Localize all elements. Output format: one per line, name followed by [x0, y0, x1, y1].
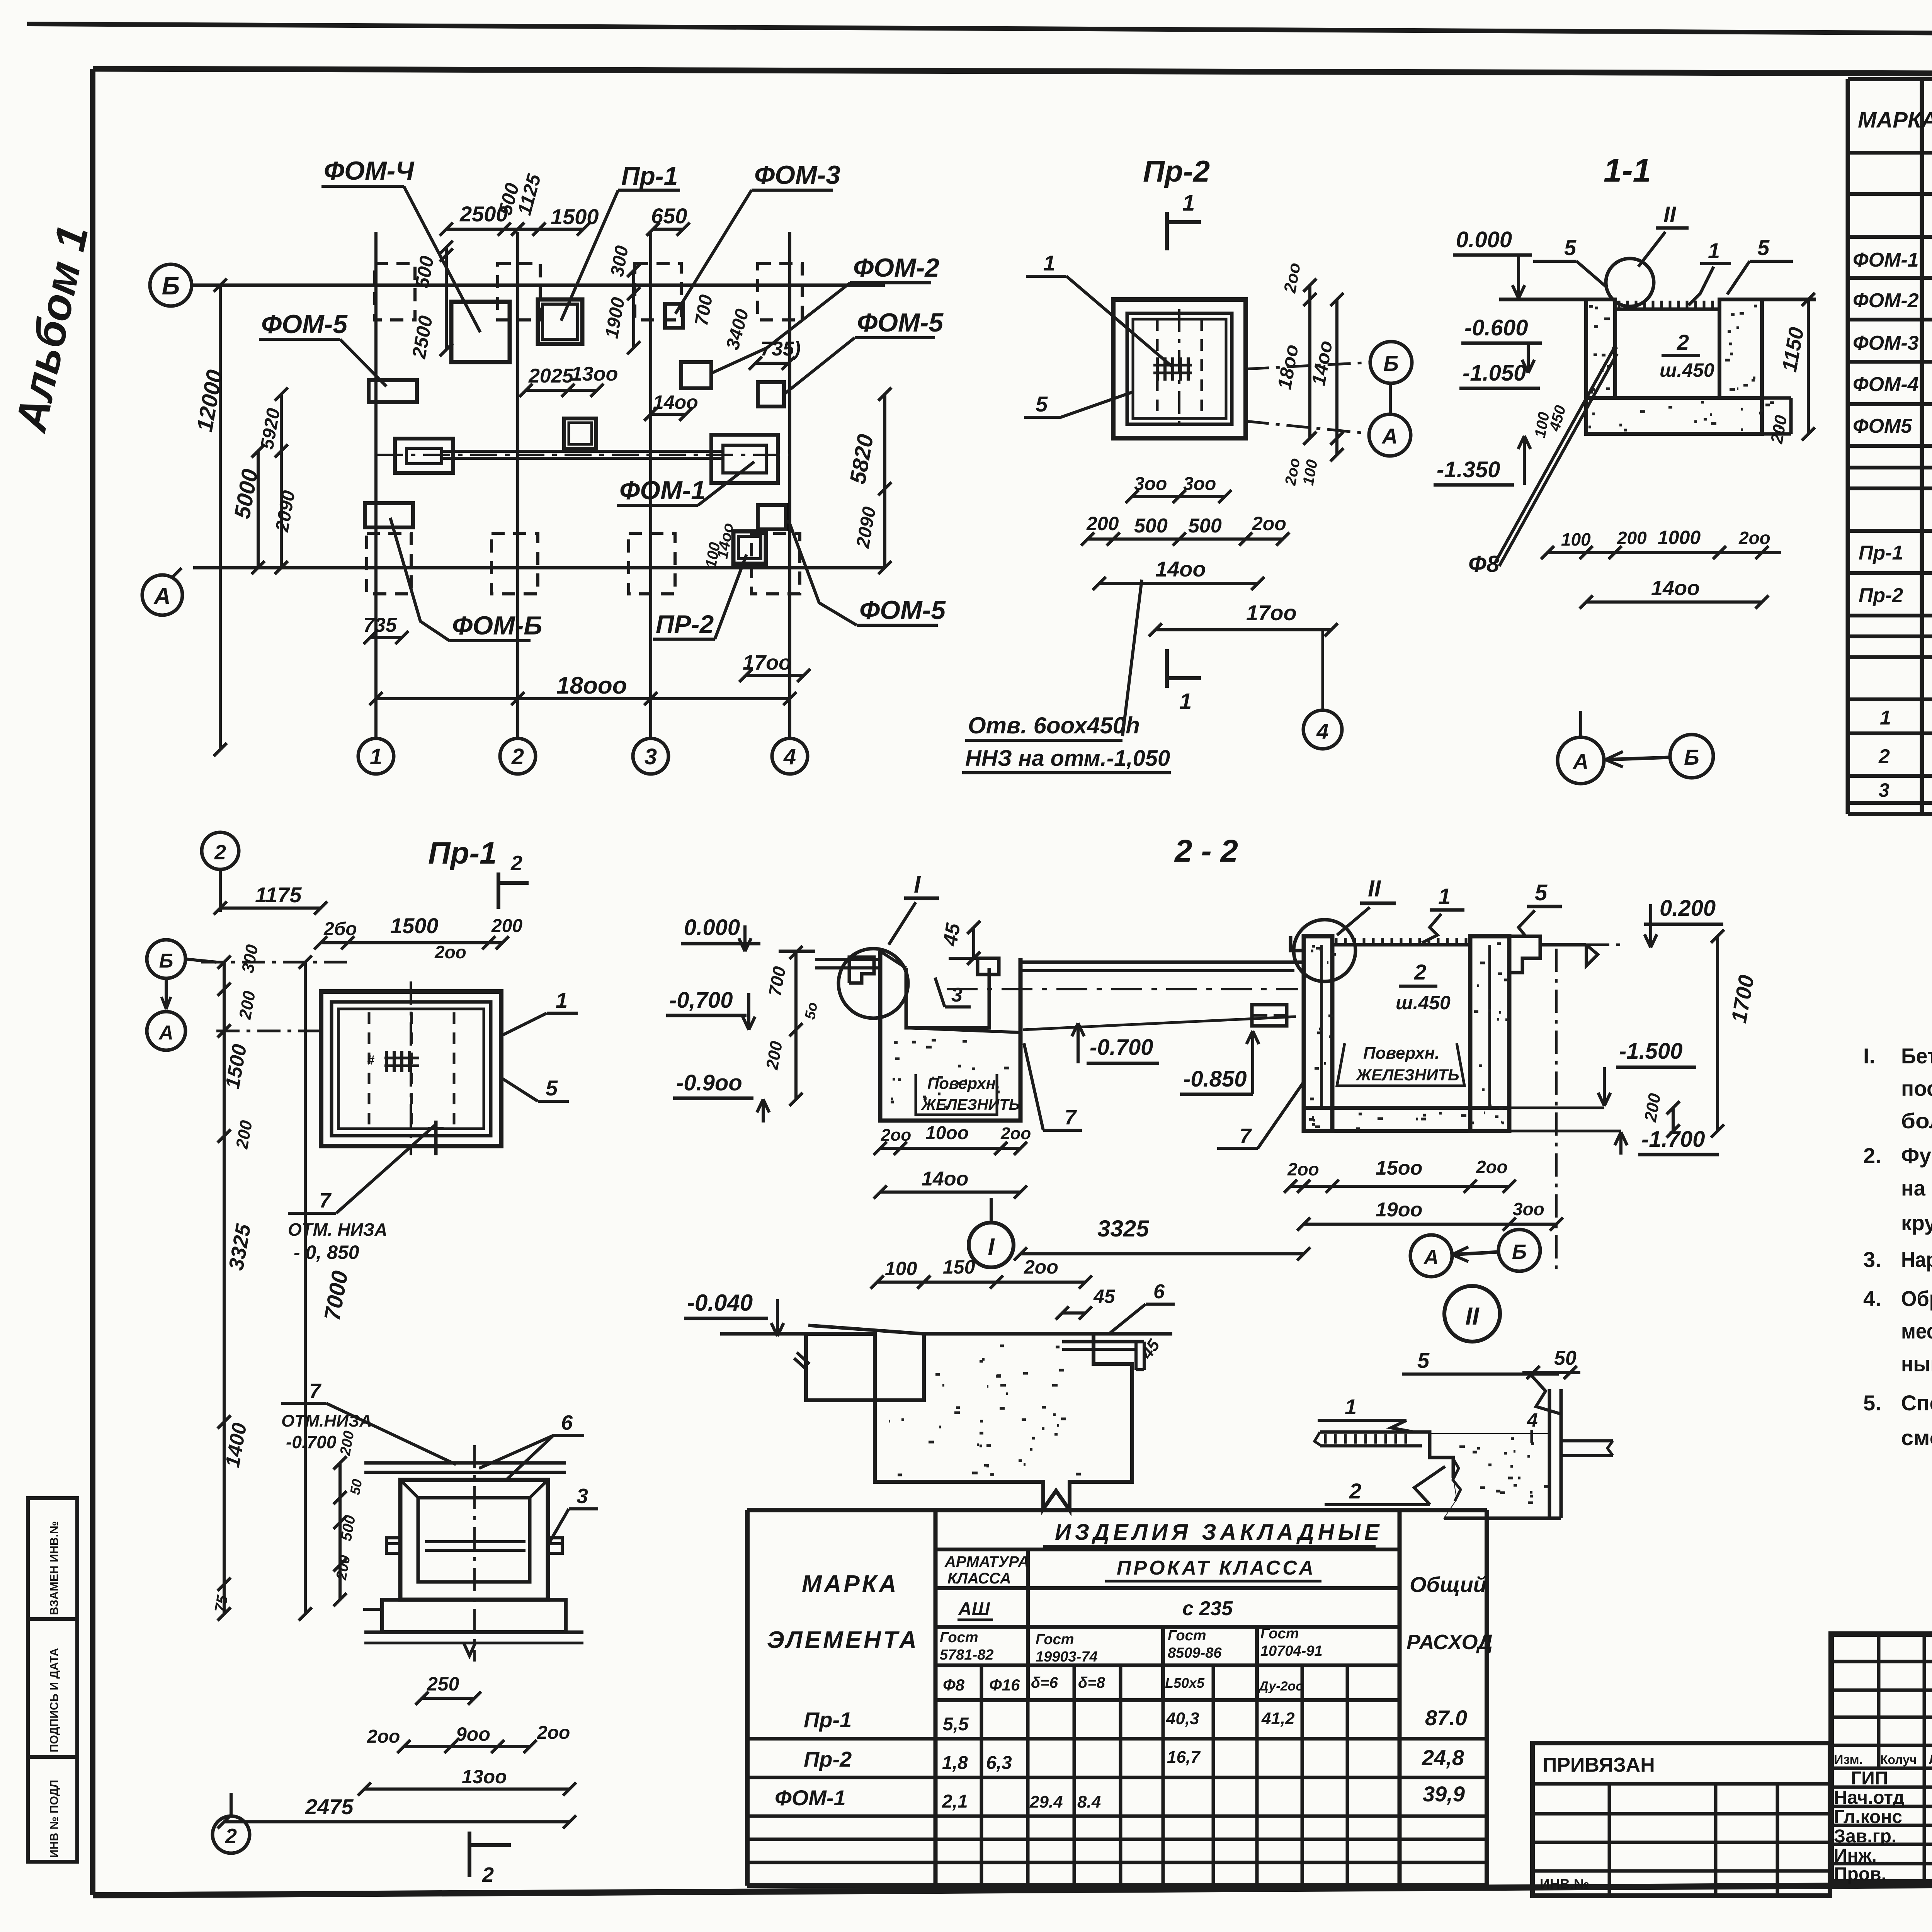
svg-text:5: 5	[1417, 1348, 1430, 1372]
section 2-2 label 3	[935, 978, 971, 1007]
spec row FOM-1	[1853, 242, 1932, 278]
svg-text:ФОМ-5: ФОМ-5	[261, 310, 348, 339]
svg-text:Пр-1: Пр-1	[1859, 542, 1903, 564]
svg-text:18ооо: 18ооо	[556, 672, 627, 699]
svg-text:ОТМ.НИЗА: ОТМ.НИЗА	[281, 1412, 372, 1430]
svg-text:Пр-2: Пр-2	[1143, 154, 1210, 188]
plan axis circle A	[142, 568, 182, 615]
Pr-1 lower left dims	[333, 1430, 365, 1606]
svg-text:ш.450: ш.450	[1660, 359, 1714, 381]
spec row PR-1	[1859, 539, 1932, 565]
spec row detail 2	[1878, 733, 1932, 770]
svg-text:Пр-1: Пр-1	[804, 1708, 852, 1732]
svg-text:ФОМ-Б: ФОМ-Б	[452, 611, 542, 640]
foundation FOM-1 plan left block	[395, 439, 453, 473]
label 5 leader Pr-2	[1024, 392, 1132, 417]
svg-text:2: 2	[510, 852, 522, 875]
detail I concrete body	[875, 1334, 1132, 1510]
plan middle small block	[564, 418, 596, 449]
svg-text:15оо: 15оо	[1376, 1157, 1422, 1179]
label PR-1 with leader	[561, 162, 680, 321]
svg-text:Фундаменты под оборудование из: Фундаменты под оборудование из монолитно…	[1901, 1143, 1932, 1168]
elevation -0,700 section 2-2 left	[666, 988, 755, 1030]
svg-text:на грунтовом основании, уплотн: на грунтовом основании, уплотненном втра…	[1901, 1176, 1932, 1200]
plan axis circle B	[150, 264, 192, 306]
svg-text:3оо: 3оо	[1134, 474, 1167, 494]
plan column axis 3	[649, 232, 652, 739]
svg-text:ФОМ-1: ФОМ-1	[619, 476, 706, 505]
svg-text:А: А	[1381, 424, 1398, 448]
detail II right slab lines	[1444, 1389, 1613, 1518]
svg-text:-1.350: -1.350	[1437, 457, 1500, 482]
svg-text:Нач.отд: Нач.отд	[1834, 1787, 1905, 1808]
svg-text:Отв. 6оох450h: Отв. 6оох450h	[968, 713, 1140, 738]
embedded parts row PR-1	[804, 1706, 1467, 1735]
svg-text:2: 2	[225, 1825, 237, 1848]
section 2-2 bottom dim 3325	[1014, 1216, 1310, 1260]
detail II label 1	[1318, 1395, 1414, 1432]
svg-text:250: 250	[427, 1673, 459, 1695]
svg-text:7: 7	[1065, 1106, 1077, 1129]
Pr-1 label 1 leader	[502, 988, 578, 1036]
svg-text:болтов с установочными чертежа: болтов с установочными чертежами получен…	[1901, 1109, 1932, 1133]
svg-text:I.: I.	[1863, 1044, 1875, 1068]
Pr-1 plan dashed lines inside	[369, 981, 454, 1155]
svg-text:Наружные поверхности приямков: Наружные поверхности приямков обмазать г…	[1901, 1247, 1932, 1272]
svg-text:А: А	[153, 583, 170, 609]
section 1-1 label 5 left	[1533, 235, 1607, 288]
svg-text:Поверхн.: Поверхн.	[1363, 1044, 1440, 1063]
svg-text:II: II	[1368, 876, 1381, 901]
svg-text:крупностью 40 ÷ 60мм: крупностью 40 ÷ 60мм	[1901, 1211, 1932, 1235]
svg-text:1: 1	[1043, 251, 1055, 275]
margin stamp boxes	[28, 1498, 77, 1862]
section 1-1 floor	[1586, 398, 1791, 434]
spec row detail 3	[1879, 776, 1932, 806]
svg-text:Ф8: Ф8	[1468, 551, 1500, 577]
elevation -0.600 section 1-1	[1461, 315, 1542, 373]
svg-text:5: 5	[1757, 235, 1770, 260]
Pr-2 plan outer wall	[1113, 299, 1246, 438]
section 1-1 small dims left wall	[1532, 403, 1569, 439]
Pr-1 bottom dim 2475	[218, 1794, 576, 1828]
svg-text:2оо: 2оо	[1252, 513, 1286, 534]
svg-text:2оо: 2оо	[1000, 1124, 1031, 1143]
section 2-2 right dim 1700	[1711, 930, 1759, 1138]
plan axis line A	[193, 566, 885, 570]
svg-text:200: 200	[1617, 528, 1647, 548]
section 1-1 label 2 sh450	[1660, 330, 1714, 381]
svg-text:ПР-2: ПР-2	[656, 610, 714, 638]
svg-text:1000: 1000	[1658, 527, 1701, 548]
svg-text:14оо: 14оо	[1651, 577, 1700, 600]
svg-text:ПРИВЯЗАН: ПРИВЯЗАН	[1543, 1754, 1655, 1776]
svg-text:ПРОКАТ КЛАССА: ПРОКАТ КЛАССА	[1117, 1557, 1316, 1579]
svg-text:ННЗ на отм.-1,050: ННЗ на отм.-1,050	[965, 746, 1170, 771]
section 2-2 view circles A B bottom	[1410, 1230, 1540, 1277]
elevation -1.350 section 1-1	[1434, 436, 1531, 485]
section 2-2 right pit grating	[1332, 938, 1470, 945]
detail I elevation -0.040	[684, 1290, 784, 1336]
svg-text:-0,700: -0,700	[669, 988, 733, 1013]
Pr-2 dim 200 500 500 200	[1081, 513, 1289, 546]
svg-text:6: 6	[561, 1411, 573, 1434]
Pr-1 lower section top slab line	[364, 1463, 566, 1472]
section 2-2 poverkh zheleznit left	[916, 1074, 1020, 1115]
notes text block	[1863, 1044, 1932, 1450]
svg-text:2475: 2475	[305, 1794, 354, 1819]
svg-text:Гост: Гост	[1036, 1631, 1074, 1648]
svg-text:3: 3	[577, 1485, 588, 1508]
svg-text:17оо: 17оо	[1246, 600, 1297, 625]
svg-text:Инж.: Инж.	[1834, 1845, 1877, 1866]
column footing dashed A3	[629, 533, 675, 594]
svg-text:после сверки размеров фундамен: после сверки размеров фундаментов и разб…	[1901, 1076, 1932, 1100]
foundation FOM-3 plan	[665, 304, 683, 328]
svg-text:7: 7	[319, 1189, 332, 1212]
embedded parts row FOM-1	[775, 1782, 1465, 1812]
svg-text:3оо: 3оо	[1513, 1199, 1544, 1219]
Pr-1 label 6 leader	[479, 1411, 584, 1480]
svg-text:МАРКА: МАРКА	[1858, 107, 1932, 133]
svg-text:Пр-1: Пр-1	[428, 836, 497, 870]
plan axis circle 3	[633, 738, 668, 774]
plan axis line B	[191, 284, 885, 287]
svg-text:3: 3	[1879, 779, 1889, 801]
plan dimension 500 2500 left	[408, 241, 453, 361]
Pr-1 anchor mark bottom	[428, 1121, 444, 1155]
svg-text:1: 1	[1880, 707, 1891, 729]
Pr-2 dim 1400	[1093, 557, 1264, 590]
svg-text:АШ: АШ	[958, 1599, 990, 1619]
detail II grating slab	[1315, 1432, 1422, 1446]
svg-text:1175: 1175	[255, 883, 302, 907]
foundation FOM-5 plan bottom-right	[758, 505, 786, 529]
svg-text:А: А	[1423, 1246, 1439, 1269]
svg-text:10оо: 10оо	[925, 1123, 969, 1143]
Pr-2 dim 1700	[1149, 600, 1338, 636]
Pr-1 bottom dim 250	[415, 1673, 481, 1705]
embedded parts table header text	[767, 1520, 1493, 1694]
svg-text:Б: Б	[1512, 1240, 1527, 1264]
svg-text:Спецификацию на монолитные кон: Спецификацию на монолитные конструкции Ф…	[1901, 1391, 1932, 1415]
detail I ground line	[720, 1325, 1172, 1334]
spec row detail 1	[1880, 707, 1932, 736]
Pr-1 anchor cluster	[367, 1051, 419, 1072]
svg-text:ФОМ-2: ФОМ-2	[1853, 289, 1919, 312]
svg-text:3: 3	[645, 744, 657, 769]
column footing dashed A1	[367, 533, 411, 594]
Pr-2 section mark 1 top	[1167, 190, 1201, 250]
svg-text:40,3: 40,3	[1166, 1709, 1199, 1728]
svg-text:1500: 1500	[390, 913, 439, 938]
svg-text:ФОМ5: ФОМ5	[1853, 415, 1912, 437]
svg-text:2: 2	[1349, 1479, 1361, 1503]
svg-text:АРМАТУРА: АРМАТУРА	[944, 1553, 1029, 1570]
section 1-1 label 1	[1689, 238, 1731, 305]
detail II circle mark	[1444, 1286, 1500, 1342]
elevation -0.700 mid	[1072, 1023, 1159, 1063]
svg-text:7: 7	[309, 1379, 322, 1403]
svg-text:ИЗДЕЛИЯ ЗАКЛАДНЫЕ: ИЗДЕЛИЯ ЗАКЛАДНЫЕ	[1055, 1520, 1383, 1545]
svg-text:ФОМ-1: ФОМ-1	[1853, 249, 1919, 271]
section 2-2 right pit structure	[1291, 936, 1540, 1131]
svg-text:ФОМ-5: ФОМ-5	[857, 308, 944, 337]
svg-text:Б: Б	[1684, 745, 1699, 769]
svg-text:2оо: 2оо	[1738, 528, 1770, 548]
section 1-1 grating	[1615, 301, 1719, 309]
svg-text:ИНВ.№: ИНВ.№	[1540, 1876, 1589, 1892]
Pr-2 axis circle A	[1246, 362, 1411, 456]
section 2-2 label 7 right	[1217, 1082, 1304, 1148]
svg-text:19оо: 19оо	[1376, 1199, 1422, 1221]
svg-text:6: 6	[1153, 1281, 1165, 1303]
plan left dimension 5920	[257, 388, 299, 574]
svg-text:4: 4	[1316, 719, 1328, 743]
svg-text:735: 735	[363, 614, 397, 636]
svg-text:Ф8: Ф8	[943, 1676, 965, 1694]
svg-text:1: 1	[1179, 689, 1192, 714]
channel trench lines	[376, 451, 790, 458]
svg-text:2.: 2.	[1863, 1143, 1881, 1168]
detail II label 4	[1527, 1409, 1538, 1443]
elevation 0.000 section 1-1	[1453, 227, 1532, 298]
svg-text:ЭЛЕМЕНТА: ЭЛЕМЕНТА	[767, 1627, 919, 1653]
svg-text:Пр-2: Пр-2	[804, 1747, 852, 1771]
column footing dashed B4	[758, 264, 802, 320]
detail II step	[1416, 1432, 1453, 1478]
detail I dim 45	[1056, 1286, 1116, 1320]
label FOM-3 with leader	[675, 160, 840, 314]
section 1-1 rebar label 58	[1468, 347, 1617, 577]
Pr-2 plan inner wall	[1127, 313, 1232, 424]
detail I concrete pier left	[794, 1334, 875, 1400]
plan axis circle 2	[500, 738, 536, 774]
svg-text:-0.600: -0.600	[1464, 315, 1528, 340]
svg-text:0.000: 0.000	[684, 915, 740, 940]
svg-text:8509-86: 8509-86	[1168, 1645, 1222, 1661]
Pr-1 section mark 2 top	[498, 852, 529, 909]
label 1 leader Pr-2	[1026, 251, 1173, 367]
svg-text:#: #	[367, 1053, 374, 1068]
svg-text:КЛАССА: КЛАССА	[947, 1570, 1011, 1587]
svg-text:2: 2	[511, 744, 524, 769]
svg-text:Ду-2оо: Ду-2оо	[1258, 1679, 1304, 1694]
svg-text:87.0: 87.0	[1425, 1706, 1467, 1730]
plan left dimension 5000	[230, 444, 265, 574]
svg-text:8.4: 8.4	[1077, 1793, 1101, 1811]
svg-text:200: 200	[491, 916, 522, 936]
section 2-2 left ground line	[779, 951, 880, 968]
svg-text:200: 200	[1086, 513, 1119, 534]
Pr-1 axis circle 2 top	[202, 832, 239, 915]
svg-text:2: 2	[1878, 745, 1890, 768]
svg-text:45: 45	[1093, 1286, 1116, 1307]
section 1-1 label 5 right	[1727, 235, 1793, 294]
svg-text:500: 500	[1134, 515, 1168, 537]
svg-text:ФОМ-3: ФОМ-3	[1853, 332, 1919, 354]
svg-text:2: 2	[1677, 330, 1689, 354]
svg-text:1: 1	[370, 744, 382, 769]
svg-text:2025: 2025	[528, 365, 574, 387]
svg-text:1,8: 1,8	[942, 1753, 968, 1773]
svg-text:0.200: 0.200	[1660, 896, 1716, 921]
section 2-2 bottom dim 200 1000 200 left pit	[874, 1123, 1031, 1155]
svg-text:14оо: 14оо	[1155, 557, 1206, 581]
Pr-1 left dim chain	[212, 943, 262, 1621]
detail II label 5	[1402, 1348, 1562, 1414]
svg-text:Пр-1: Пр-1	[621, 162, 678, 190]
section 2-2 bottom dim 1400 left pit	[874, 1168, 1027, 1199]
svg-text:ГИП: ГИП	[1851, 1768, 1888, 1789]
section 2-2 left pit structure	[849, 951, 1020, 1121]
svg-text:1: 1	[1345, 1395, 1357, 1419]
plan dimension 18000	[369, 672, 796, 705]
privyazan box	[1532, 1743, 1830, 1896]
Pr-2 plan dashed openings	[1157, 309, 1202, 429]
svg-text:Зав.гр.: Зав.гр.	[1834, 1826, 1896, 1847]
plan axis circle 1	[358, 738, 394, 774]
svg-text:2,1: 2,1	[942, 1791, 968, 1812]
svg-text:2: 2	[1414, 960, 1426, 984]
section 2-2 detail circle II	[1294, 920, 1355, 981]
detail II concrete patch	[1430, 1434, 1549, 1518]
plan column axis 2	[516, 232, 519, 739]
foundation FOM-2 plan	[681, 362, 711, 388]
plan top dimension chain	[440, 171, 690, 236]
svg-text:II: II	[1465, 1302, 1480, 1330]
section 2-2 poverkh zheleznit right	[1337, 1043, 1464, 1086]
elevation -1.050 section 1-1	[1459, 361, 1540, 388]
section 1-1 left wall	[1586, 299, 1617, 398]
stamp header labels	[1834, 1752, 1932, 1767]
svg-text:-1.050: -1.050	[1463, 361, 1526, 386]
specification table grid	[1848, 79, 1932, 814]
plan dimension 1400	[644, 391, 698, 421]
Pr-1 note 7 otm niza -0850	[288, 1124, 437, 1263]
label FOM-5 bottom-right with leader	[788, 520, 946, 625]
foundation FOM-5 plan top-left	[369, 380, 417, 402]
margin stamp text	[48, 1521, 61, 1858]
svg-text:I: I	[988, 1234, 995, 1260]
svg-text:Пр-2: Пр-2	[1859, 584, 1903, 607]
svg-text:19903-74: 19903-74	[1036, 1649, 1098, 1665]
Pr-1 axis dash lines	[201, 962, 350, 1031]
section 2-2 label II	[1337, 876, 1396, 935]
svg-text:6,3: 6,3	[986, 1753, 1012, 1773]
svg-text:100: 100	[1561, 529, 1591, 549]
section 1-1 ground line	[1499, 298, 1816, 301]
svg-text:2оо: 2оо	[1287, 1159, 1319, 1179]
label FOM-5 top-right with leader	[785, 308, 944, 393]
svg-text:смотри на листе 5: смотри на листе 5	[1901, 1425, 1932, 1450]
section 2-2 label 2 sh450 right	[1396, 960, 1451, 1014]
foundation FOM-1 plan right block	[711, 435, 778, 483]
foundation FOM-5 plan top-right	[758, 382, 784, 406]
section 2-2 pipe sleeve	[1252, 1005, 1287, 1026]
svg-text:Гост: Гост	[940, 1629, 978, 1646]
section 2-2 bottom dim 200 1500 200 right pit	[1284, 1157, 1516, 1193]
Pr-1 lower section walls	[400, 1480, 548, 1600]
column footing dashed A4	[752, 533, 800, 594]
svg-text:ФОМ-4: ФОМ-4	[1853, 373, 1919, 396]
section 2-2 bottom dim 1900 300	[1297, 949, 1563, 1271]
section 1-1 right dim 1150 200	[1767, 293, 1815, 446]
svg-text:2оо: 2оо	[537, 1723, 570, 1743]
Pr-1 axis circle A left	[147, 1012, 185, 1050]
svg-text:5: 5	[1535, 880, 1548, 905]
svg-text:1: 1	[556, 988, 568, 1012]
column footing dashed A2	[492, 533, 538, 594]
svg-text:3оо: 3оо	[1183, 474, 1216, 494]
svg-text:2: 2	[482, 1863, 494, 1886]
plan column axis 1	[374, 232, 378, 739]
svg-text:ным уплотнением.: ным уплотнением.	[1901, 1352, 1932, 1376]
svg-text:-0.850: -0.850	[1183, 1066, 1247, 1092]
svg-text:1-1: 1-1	[1604, 152, 1651, 189]
svg-text:75: 75	[212, 1594, 231, 1614]
label FOM-4 with leader	[321, 156, 480, 332]
plan dimension 300 1900 mid	[602, 244, 640, 354]
svg-text:13оо: 13оо	[571, 363, 618, 385]
Pr-1 dim 1175	[220, 883, 327, 915]
svg-text:-0.700: -0.700	[1090, 1035, 1153, 1060]
svg-text:5.: 5.	[1863, 1391, 1881, 1415]
svg-text:ВЗАМЕН ИНВ.№: ВЗАМЕН ИНВ.№	[48, 1521, 61, 1615]
column footing dashed B1	[375, 264, 415, 320]
Pr-1 note 7 otm niza -0700	[281, 1379, 456, 1464]
svg-text:4.: 4.	[1863, 1286, 1881, 1311]
svg-text:Лист: Лист	[1929, 1752, 1932, 1767]
Pr-1 axis circle B left	[147, 940, 216, 1009]
svg-text:3: 3	[951, 984, 963, 1006]
Pr-1 section mark 2 bottom	[469, 1832, 511, 1886]
svg-text:ФОМ-2: ФОМ-2	[853, 253, 939, 282]
plan axis circle 4	[772, 738, 808, 774]
plan dimension 2025 1300	[519, 363, 618, 397]
Pr-1 label 5 leader	[502, 1076, 569, 1101]
svg-text:А: А	[1572, 749, 1588, 774]
plan right dimension 5820	[845, 388, 891, 574]
spec row PR-2	[1859, 582, 1932, 607]
svg-text:1: 1	[1182, 190, 1195, 216]
detail II label 2	[1325, 1466, 1445, 1505]
svg-text:Гост: Гост	[1260, 1626, 1299, 1642]
svg-text:10704-91: 10704-91	[1260, 1643, 1323, 1659]
svg-text:Б: Б	[162, 271, 180, 300]
Pr-1 plan outer wall	[321, 992, 501, 1146]
svg-text:ИНВ № ПОДЛ: ИНВ № ПОДЛ	[48, 1780, 61, 1858]
svg-text:39,9: 39,9	[1423, 1782, 1465, 1806]
Pr-1 top dims 260 1500 200	[314, 913, 522, 962]
Pr-1 plan inner walls	[332, 1002, 491, 1136]
svg-text:2бо: 2бо	[323, 919, 357, 939]
section 2-2 label 7 left	[1024, 1043, 1082, 1130]
plan dimension 735 bottom	[363, 614, 408, 644]
stamp left grid	[1831, 1634, 1932, 1882]
svg-text:местным грунтом равномерно со: местным грунтом равномерно со всех сторо…	[1901, 1319, 1932, 1343]
section 2-2 detail circle I bottom	[969, 1198, 1014, 1267]
svg-text:13оо: 13оо	[462, 1766, 507, 1787]
specification table header	[1858, 98, 1932, 146]
elevation -1.700 right	[1509, 1092, 1719, 1155]
section 1-1 label II	[1638, 202, 1689, 267]
svg-text:Ф16: Ф16	[989, 1676, 1020, 1694]
svg-text:4: 4	[783, 744, 796, 769]
Pr-2 right dim 200 1800 1400	[1274, 261, 1344, 487]
svg-text:2оо: 2оо	[881, 1126, 911, 1145]
Pr-1 lower section bottom flange	[363, 1600, 583, 1656]
